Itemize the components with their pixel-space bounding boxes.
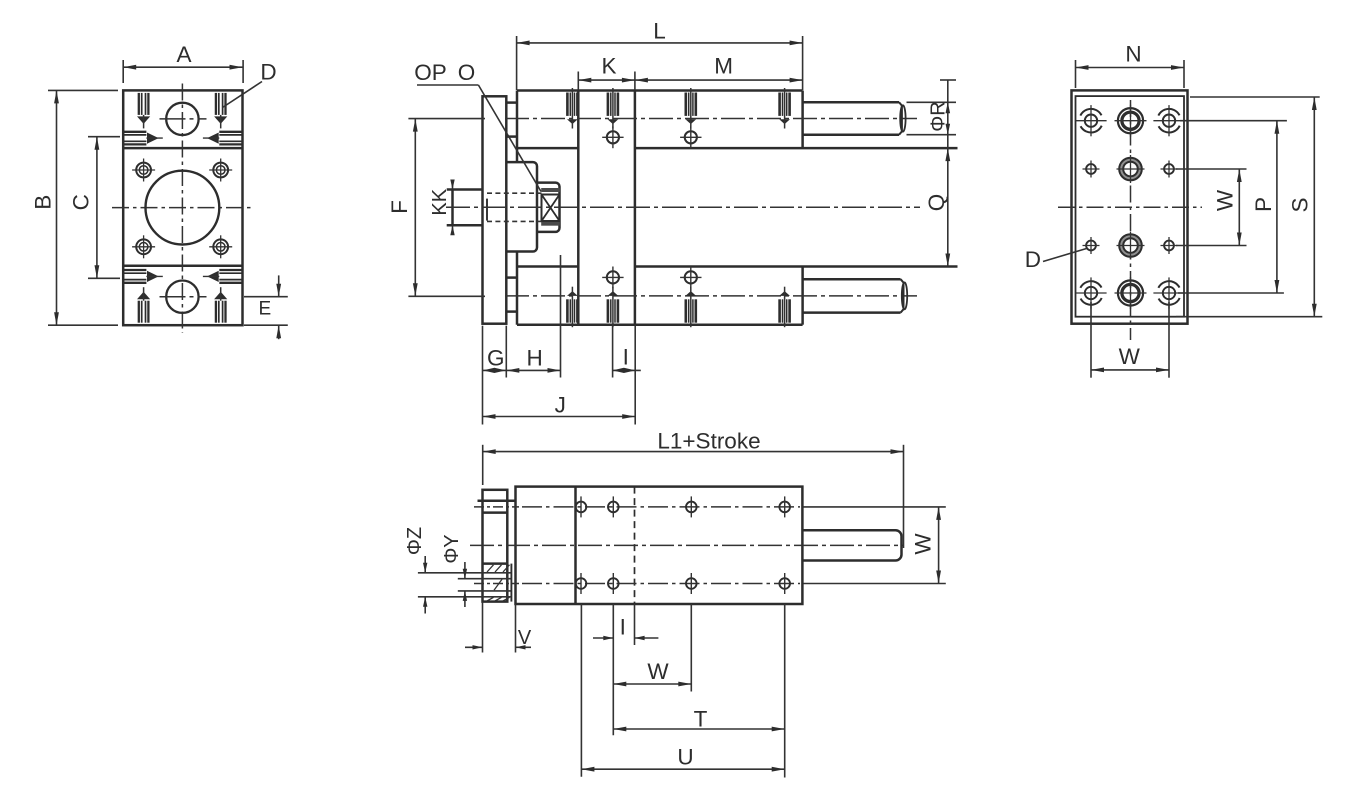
dimension R extension lines bbox=[907, 101, 957, 103]
side view: top rail outline bbox=[517, 89, 803, 92]
side view: rail left edges bbox=[516, 91, 519, 163]
svg-text:O: O bbox=[458, 60, 476, 85]
side view: top rail screw slot 1 bbox=[566, 93, 569, 116]
dimension KK line with outside arrows bbox=[452, 183, 454, 190]
bottom view: bottom row screw hole 2 bbox=[608, 578, 619, 589]
left view: bottom port circle bbox=[166, 281, 198, 313]
svg-text:K: K bbox=[601, 54, 616, 79]
left view: tie-rod hole bottom-left bbox=[136, 239, 151, 254]
side view: cylinder tube bottom edge / Q extension bbox=[635, 265, 958, 268]
side view: bottom rail screw slot 2 bbox=[607, 299, 610, 322]
svg-text:I: I bbox=[620, 614, 626, 639]
dimension R line with inside arrows bbox=[947, 80, 949, 148]
svg-text:ΦZ: ΦZ bbox=[404, 527, 426, 555]
left view: vertical centerline bbox=[181, 84, 183, 334]
side view: bottom rail screw slot 4 bbox=[778, 299, 781, 322]
side view: plate through-hole top 2 bbox=[685, 131, 697, 143]
svg-text:ΦY: ΦY bbox=[441, 534, 463, 563]
dimension C extension lines bbox=[88, 136, 120, 138]
right view: center socket screw bottom bbox=[1118, 280, 1143, 305]
bottom view: top row screw hole 3 bbox=[686, 502, 697, 513]
bottom view: plate hidden edge (dashed) bbox=[634, 487, 636, 604]
left view: rod bore circle bbox=[146, 171, 220, 245]
bottom view: top row screw hole 1 bbox=[576, 502, 587, 513]
svg-text:ΦR: ΦR bbox=[928, 101, 950, 131]
dimension E extension lines bbox=[244, 296, 288, 298]
svg-text:W: W bbox=[1119, 344, 1141, 369]
dimension K line bbox=[578, 79, 635, 81]
side view: top guide rod bbox=[803, 101, 899, 104]
svg-text:L: L bbox=[653, 19, 666, 44]
dimension C line bbox=[96, 137, 98, 279]
dimension I line with lens arrow bbox=[613, 369, 641, 371]
dimension T line bbox=[613, 728, 784, 730]
left view: top port circle bbox=[166, 103, 198, 135]
left view: side slot upper-right bbox=[219, 131, 242, 133]
bottom view: bottom row screw hole 4 bbox=[779, 578, 790, 589]
bottom view: bottom row screw hole 1 bbox=[576, 578, 587, 589]
bottom view: top row screw hole 2 bbox=[608, 502, 619, 513]
svg-text:P: P bbox=[1251, 197, 1276, 212]
svg-text:I: I bbox=[623, 345, 629, 370]
side view: flange bottom step bbox=[506, 310, 517, 313]
side view: mounting plate bbox=[577, 91, 580, 325]
bottom view: plate front edge bbox=[574, 487, 577, 604]
side view: main axis centerline bbox=[446, 206, 920, 208]
svg-text:OP: OP bbox=[414, 60, 447, 85]
svg-text:W: W bbox=[911, 533, 936, 555]
bottom view: thread hatching bbox=[487, 565, 494, 572]
dimension B line bbox=[56, 90, 58, 325]
dimension J line bbox=[483, 416, 636, 418]
bottom view: column extension lines below body bbox=[580, 604, 582, 777]
right view: center port upper (shaded) bbox=[1119, 158, 1142, 181]
dimension S line bbox=[1313, 97, 1315, 317]
dimension G line with lens arrow bbox=[483, 369, 507, 371]
side view: plate through-hole top 1 bbox=[607, 131, 619, 143]
svg-text:KK: KK bbox=[429, 188, 451, 215]
side view: rod guide block bbox=[537, 183, 560, 232]
bottom view: flange plate bbox=[483, 490, 508, 602]
dimension K extension lines bbox=[577, 72, 579, 91]
dimension W (bottom of right view) extension lines bbox=[1090, 302, 1092, 378]
side view: top rail screw slot 3 bbox=[684, 93, 687, 116]
right view: corner mounting hole top-right bbox=[1153, 105, 1184, 136]
side view: cylinder tube top edge / R-Q extension bbox=[635, 147, 958, 150]
dimension G H I J extension lines below bbox=[482, 326, 484, 425]
bottom view: bottom row screw hole 3 bbox=[686, 578, 697, 589]
side view: top rail screw slot 2 bbox=[607, 93, 610, 116]
left view: tie-rod hole bottom-right bbox=[213, 239, 228, 254]
side view: rod lock nut dark bands bbox=[542, 188, 560, 191]
dimension Q line bbox=[947, 148, 949, 266]
dimension P line bbox=[1276, 121, 1278, 293]
dimension N extension lines bbox=[1075, 60, 1077, 88]
svg-text:W: W bbox=[647, 659, 669, 684]
left view: tie-rod hole top-left bbox=[136, 163, 151, 178]
dimension L extension lines bbox=[516, 36, 518, 90]
right view: corner mounting hole bottom-right bbox=[1153, 277, 1184, 308]
dimension W (bottom of right view) line bbox=[1091, 369, 1169, 371]
bottom view: top rail stub lines bbox=[478, 500, 516, 503]
svg-text:N: N bbox=[1125, 42, 1141, 67]
dimension PhiY line with outside arrows bbox=[464, 562, 466, 579]
svg-text:T: T bbox=[694, 706, 708, 731]
svg-text:D: D bbox=[1025, 247, 1041, 272]
left view: bottom mounting screw slot left bbox=[138, 301, 140, 323]
side view: bottom guide rod bbox=[803, 278, 901, 281]
svg-text:V: V bbox=[518, 627, 532, 649]
svg-text:C: C bbox=[69, 194, 94, 210]
side view: bearing boss with rounded corners bbox=[506, 162, 537, 251]
svg-text:L1+Stroke: L1+Stroke bbox=[657, 428, 760, 453]
left view: horizontal centerline bbox=[112, 207, 252, 209]
dimension H line bbox=[506, 369, 560, 371]
svg-text:F: F bbox=[387, 200, 412, 214]
left view: top mounting screw slot left bbox=[138, 93, 140, 115]
right view: small hole mid-right lower bbox=[1164, 241, 1174, 251]
dimension L line bbox=[517, 42, 803, 44]
right view: vertical centerline bbox=[1130, 100, 1132, 340]
dimension PhiZ line with outside arrows bbox=[424, 556, 426, 573]
left view: side slot lower-left bbox=[123, 269, 146, 271]
dimension F line bbox=[414, 119, 416, 297]
dimension V extension lines bbox=[482, 602, 484, 653]
side view: bottom rail screw slot 1 bbox=[566, 299, 569, 322]
left view: flange end face outline bbox=[123, 90, 242, 325]
svg-text:B: B bbox=[31, 195, 56, 210]
side view: rod end hidden inside flange bbox=[486, 199, 488, 221]
dimension A extension lines bbox=[122, 60, 124, 83]
side view: top guide rod axis bbox=[505, 118, 917, 120]
dimension N line bbox=[1076, 67, 1185, 69]
svg-text:Q: Q bbox=[924, 194, 949, 212]
side view: piston rod thread end bbox=[447, 188, 483, 191]
right view: small hole mid-right upper bbox=[1164, 164, 1174, 174]
svg-text:H: H bbox=[526, 345, 542, 370]
right view: small hole mid-left lower bbox=[1086, 241, 1096, 251]
bottom view: body outline bbox=[516, 487, 803, 604]
side view: plate through-hole bottom 2 bbox=[685, 271, 697, 283]
svg-text:D: D bbox=[260, 60, 276, 85]
right view: corner mounting hole top-left bbox=[1075, 105, 1106, 136]
left view: side slot upper-left bbox=[123, 131, 146, 133]
dimension M line bbox=[635, 79, 803, 81]
bottom view: row extension lines to W dimension bbox=[804, 506, 946, 508]
svg-text:U: U bbox=[677, 744, 693, 769]
side view: head flange plate bbox=[483, 96, 507, 323]
side view: bottom guide rod axis bbox=[505, 295, 917, 297]
right view: center socket screw top bbox=[1118, 108, 1143, 133]
svg-text:J: J bbox=[555, 393, 566, 418]
right view: extension lines to right dims bbox=[1180, 120, 1287, 122]
side view: flange top step bbox=[506, 101, 517, 104]
dimension L1+Stroke line bbox=[483, 451, 904, 453]
dimension W (bottom) line bbox=[613, 683, 691, 685]
side view: top rail screw slot 4 bbox=[778, 93, 781, 116]
dimension U line bbox=[581, 768, 784, 770]
right view: small hole mid-left upper bbox=[1086, 164, 1096, 174]
right view: inner plate edge bbox=[1076, 96, 1185, 317]
dimension W (rod side) line bbox=[938, 507, 940, 584]
svg-text:W: W bbox=[1213, 189, 1238, 211]
left view: tie-rod hole top-right bbox=[213, 163, 228, 178]
svg-text:A: A bbox=[176, 42, 191, 67]
dimension I (bottom) line with outside arrows bbox=[593, 637, 613, 639]
side view: rod lock nut square with cross bbox=[542, 195, 560, 222]
bottom view: bottom rail stub with guide-rod thread bbox=[483, 562, 508, 565]
left view: side slot lower-right bbox=[219, 269, 242, 271]
dimension F extension lines bbox=[408, 118, 485, 120]
side view: hidden thread lines bbox=[487, 192, 542, 194]
side view: bottom rail outline bbox=[517, 265, 578, 268]
right view: corner mounting hole bottom-left bbox=[1075, 277, 1106, 308]
left view: bottom mounting screw slot right bbox=[215, 301, 217, 323]
svg-text:G: G bbox=[487, 345, 505, 370]
dimension V line with outside arrows bbox=[465, 646, 483, 648]
svg-text:S: S bbox=[1288, 197, 1313, 212]
bottom view: main axis centerline bbox=[470, 544, 903, 546]
svg-text:E: E bbox=[258, 298, 271, 319]
left view: top rail boundary line bbox=[123, 147, 242, 150]
side view: plate through-hole bottom 1 bbox=[607, 271, 619, 283]
bottom view: screw hole row centerlines bbox=[522, 506, 800, 508]
left view: bottom rail boundary line bbox=[123, 265, 242, 268]
dimension W (right view) line bbox=[1238, 169, 1240, 246]
dimension B extension lines bbox=[48, 89, 118, 91]
right view: outer plate outline bbox=[1072, 90, 1188, 323]
bottom view: top row screw hole 4 bbox=[779, 502, 790, 513]
side view: bottom rail screw slot 3 bbox=[684, 299, 687, 322]
svg-text:M: M bbox=[714, 54, 733, 79]
right view: horizontal centerline bbox=[1058, 206, 1202, 208]
right view: center port lower (shaded) bbox=[1119, 234, 1142, 257]
bottom view: piston rod bbox=[802, 530, 901, 560]
dimension L1+Stroke extension lines bbox=[482, 445, 484, 485]
dimension A line bbox=[123, 66, 242, 68]
left view: top mounting screw slot right bbox=[215, 93, 217, 115]
dimension E line with outside arrows bbox=[278, 275, 280, 296]
